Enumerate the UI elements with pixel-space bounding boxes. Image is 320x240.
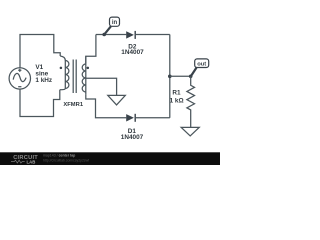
net flag in	[104, 17, 119, 34]
wire: D1 cathode to right rail	[135, 117, 170, 119]
svg-text:R1: R1	[172, 90, 181, 97]
node: in junction	[102, 33, 106, 37]
svg-text:in: in	[112, 20, 118, 26]
svg-text:LAB: LAB	[27, 159, 36, 164]
ground (under R1)	[181, 127, 199, 135]
svg-text:1 kHz: 1 kHz	[35, 77, 52, 84]
wire: top rail to D2 anode	[96, 34, 126, 36]
svg-text:1N4007: 1N4007	[121, 49, 144, 56]
diode D2	[126, 31, 135, 39]
resistor R1	[187, 76, 195, 127]
svg-text:XFMR1: XFMR1	[63, 102, 83, 108]
wire: V1 bottom to XFMR1 primary bottom pin	[20, 89, 60, 117]
core	[73, 60, 76, 94]
watermark bar	[0, 152, 220, 165]
voltage source V1	[9, 68, 30, 89]
svg-text:1N4007: 1N4007	[121, 134, 144, 141]
wire: right vertical rail	[169, 35, 171, 118]
transformer XFMR1	[60, 56, 89, 108]
wire: secondary top pin up to top rail	[86, 35, 96, 64]
net flag out	[191, 59, 209, 76]
secondary phase dot	[87, 67, 90, 70]
wire: V1 top to XFMR1 primary top pin	[20, 35, 60, 69]
svg-text:http://circuitlab.com/csy2p2sw: http://circuitlab.com/csy2p2swf	[43, 158, 89, 162]
node: junction right rail / out wire	[168, 75, 172, 79]
wire: secondary bottom pin to D1 anode	[86, 94, 127, 118]
svg-text:1 kΩ: 1 kΩ	[170, 98, 184, 105]
node: out junction	[189, 75, 193, 79]
wire: D2 cathode to right rail	[135, 34, 170, 36]
diode D1	[126, 114, 135, 122]
secondary winding	[85, 56, 87, 63]
primary phase dot	[60, 67, 63, 70]
svg-text:out: out	[197, 61, 206, 67]
ground (center tap)	[108, 95, 126, 105]
svg-text:map143 / center tap: map143 / center tap	[43, 153, 75, 157]
primary winding	[60, 56, 65, 61]
wire: out node run	[170, 75, 191, 77]
wire: center tap to ground	[86, 78, 117, 95]
